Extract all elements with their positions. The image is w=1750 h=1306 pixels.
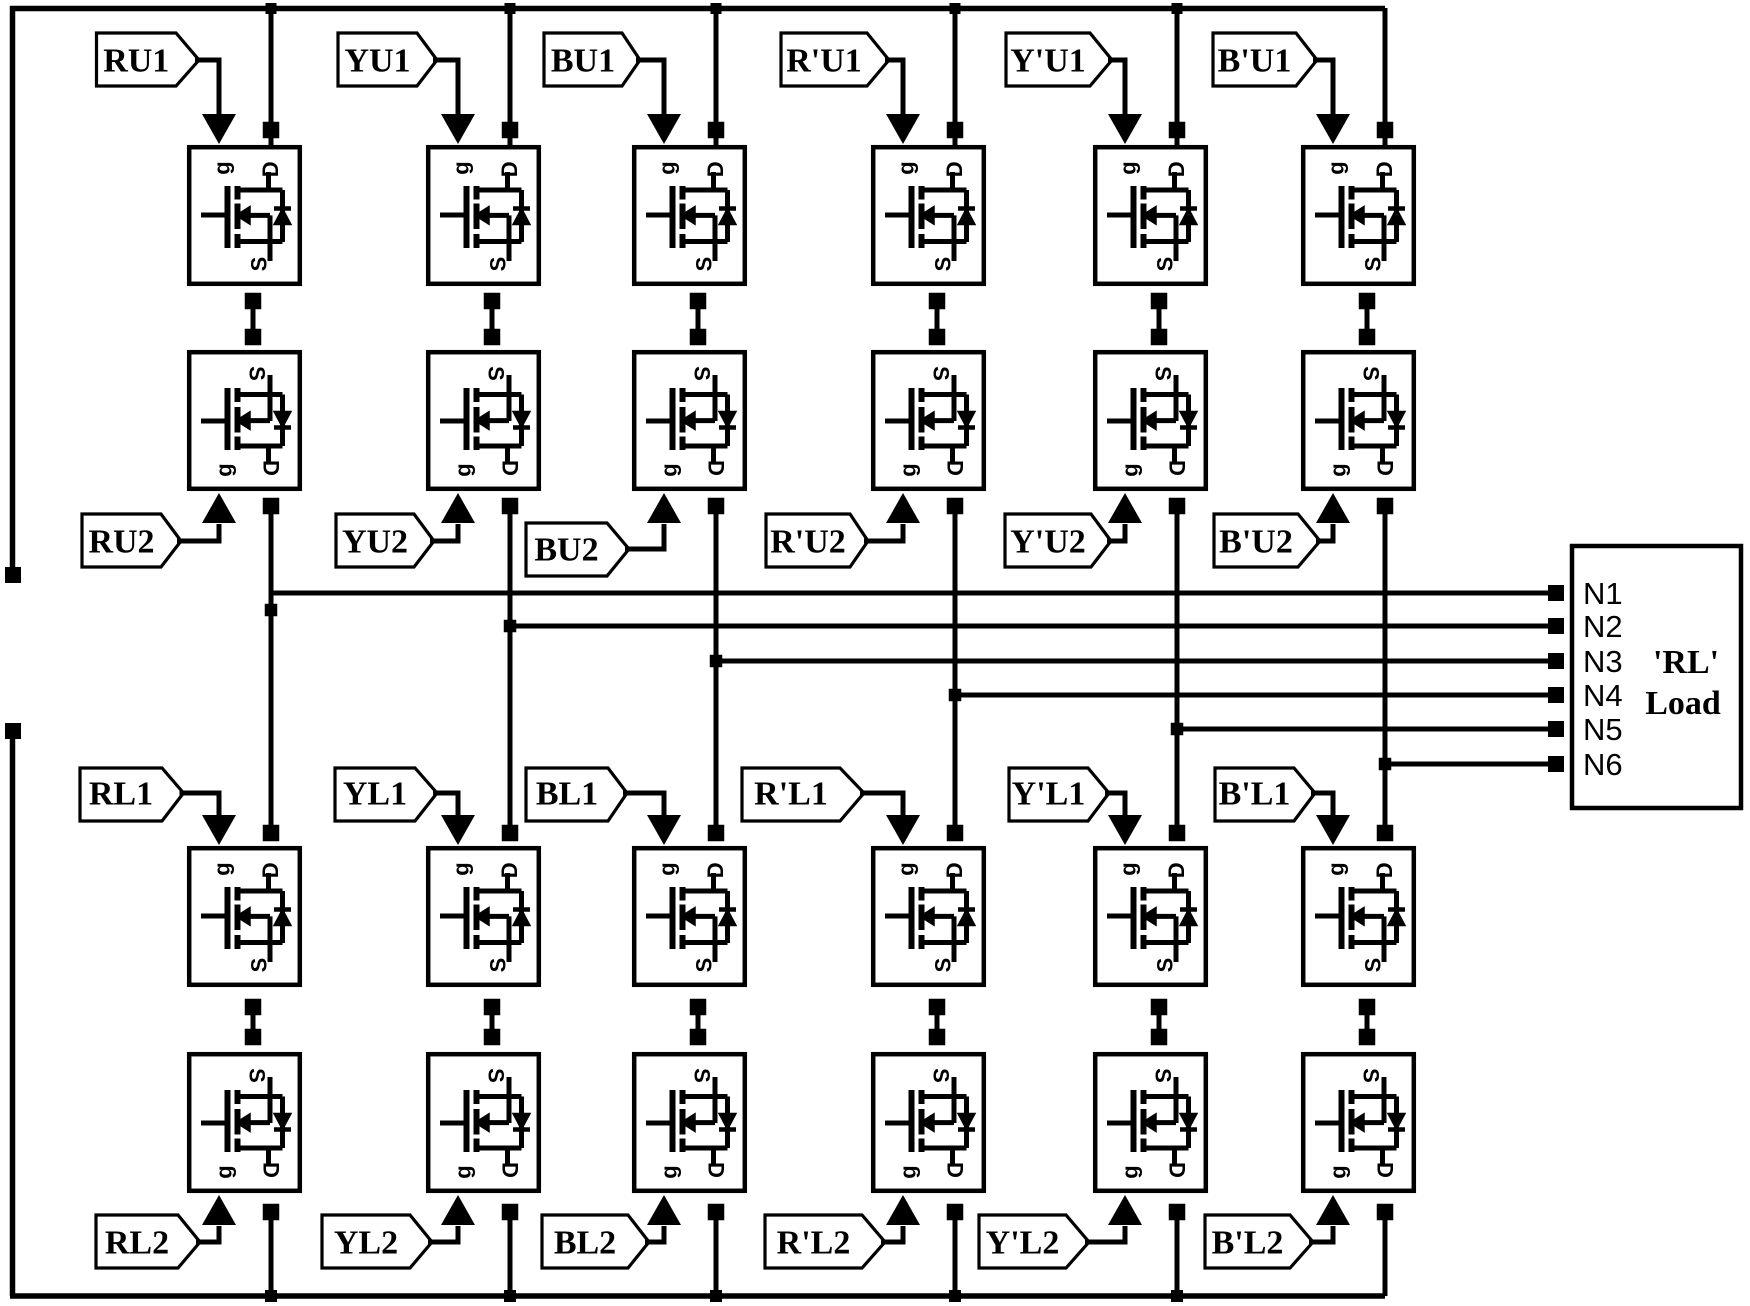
junction bottom bus col 1 [265, 1290, 277, 1302]
wire tag B'L1 to gate [1311, 793, 1333, 818]
svg-text:YU2: YU2 [342, 524, 408, 561]
mosfet YL2 [428, 1054, 539, 1191]
port square S B'L2 [1359, 1029, 1376, 1046]
junction node N1 [265, 604, 278, 617]
port square N3 [1548, 653, 1564, 669]
goto tag B'U2 [1214, 514, 1320, 567]
port square D BL1 [708, 825, 725, 842]
gate arrow Y'U2 [1108, 493, 1142, 523]
mosfet YL1 [428, 848, 539, 985]
goto tag BL1 [526, 768, 627, 821]
port square D Y'L2 [1169, 1204, 1186, 1221]
mosfet RL2 [189, 1054, 300, 1191]
goto tag B'L2 [1205, 1215, 1313, 1268]
wire node N5 line [1177, 727, 1556, 732]
wire Y'U drain to top bus [1175, 8, 1180, 145]
mosfet RU1 [189, 147, 300, 284]
port square D B'U2 [1377, 498, 1394, 515]
wire YL2 drain to bottom bus [508, 1212, 513, 1296]
svg-text:RL1: RL1 [89, 776, 153, 813]
port square S Y'U1 [1151, 293, 1168, 310]
svg-text:Y'L2: Y'L2 [986, 1225, 1060, 1262]
gate arrow Y'L2 [1108, 1195, 1142, 1225]
wire tag YL2 to gate [428, 1226, 458, 1242]
port square S YL2 [484, 1029, 501, 1046]
svg-text:N6: N6 [1583, 747, 1623, 782]
goto tag R'U1 [781, 33, 889, 86]
wire RU drain to top bus [269, 8, 274, 145]
svg-text:R'L1: R'L1 [754, 776, 828, 813]
wire tag R'L2 to gate [881, 1226, 903, 1242]
gate arrow RU2 [202, 493, 236, 523]
port square S RU1 [245, 293, 262, 310]
port square S RL1 [245, 999, 262, 1016]
junction top bus col 3 [711, 3, 722, 14]
wire YU drain to top bus [508, 8, 513, 145]
mosfet B'L2 [1303, 1054, 1414, 1191]
port square D R'U2 [947, 498, 964, 515]
svg-text:B'L2: B'L2 [1212, 1225, 1284, 1262]
wire B'L2 drain to bottom bus [1383, 1212, 1388, 1296]
wire S R'U1 to S R'U2 [935, 301, 940, 337]
gate arrow BU1 [647, 114, 681, 144]
mosfet RU2 [189, 352, 300, 489]
port square D R'L1 [947, 825, 964, 842]
svg-text:RL2: RL2 [105, 1225, 169, 1262]
wire top bus [10, 6, 1385, 12]
wire BL2 drain to bottom bus [714, 1212, 719, 1296]
wire S B'L1 to S B'L2 [1365, 1007, 1370, 1037]
wire S YU1 to S YU2 [490, 301, 495, 337]
wire tag BL1 to gate [623, 793, 664, 818]
port square D R'U1 [947, 122, 964, 139]
mosfet Y'L2 [1095, 1054, 1206, 1191]
goto tag Y'U2 [1005, 514, 1111, 567]
port square D YL1 [502, 825, 519, 842]
mosfet R'L2 [873, 1054, 984, 1191]
goto tag BU1 [544, 33, 640, 86]
port square S R'U2 [929, 329, 946, 346]
port square D Y'L1 [1169, 825, 1186, 842]
wire tag Y'U2 to gate [1107, 524, 1125, 541]
mosfet Y'L1 [1095, 848, 1206, 985]
goto tag Y'L1 [1009, 768, 1109, 821]
wire node N6 line [1385, 762, 1556, 767]
wire tag R'L1 to gate [860, 793, 903, 818]
goto tag Y'U1 [1006, 33, 1112, 86]
port square D B'U1 [1377, 122, 1394, 139]
wire S Y'L1 to S Y'L2 [1157, 1007, 1162, 1037]
wire node N1 line [271, 591, 1556, 596]
mosfet RL1 [189, 848, 300, 985]
port square S B'L1 [1359, 999, 1376, 1016]
wire S R'L1 to S R'L2 [935, 1007, 940, 1037]
gate arrow B'U2 [1316, 493, 1350, 523]
svg-text:B'L1: B'L1 [1219, 776, 1291, 813]
wire tag BU2 to gate [625, 524, 664, 549]
junction bottom bus col 5 [1171, 1290, 1183, 1302]
wire S BL1 to S BL2 [696, 1007, 701, 1037]
port square S BU1 [690, 293, 707, 310]
gate arrow B'L2 [1316, 1195, 1350, 1225]
svg-text:N2: N2 [1583, 609, 1623, 644]
junction bottom bus col 2 [504, 1290, 516, 1302]
port square S BU2 [690, 329, 707, 346]
mosfet BL2 [634, 1054, 745, 1191]
goto tag R'L2 [765, 1215, 885, 1268]
wire Y'L2 drain to bottom bus [1175, 1212, 1180, 1296]
wire B'U drain to top bus [1383, 8, 1388, 145]
junction top bus col 1 [266, 3, 277, 14]
port square N1 [1548, 585, 1564, 601]
port square D Y'U1 [1169, 122, 1186, 139]
port square S BL1 [690, 999, 707, 1016]
mosfet YU1 [428, 147, 539, 284]
svg-text:Y'U2: Y'U2 [1010, 524, 1086, 561]
port square N6 [1548, 756, 1564, 772]
junction node N2 [504, 620, 517, 633]
port square S RL2 [245, 1029, 262, 1046]
wire tag Y'L2 to gate [1085, 1226, 1125, 1242]
port square D YU2 [502, 498, 519, 515]
port square S Y'L1 [1151, 999, 1168, 1016]
port square D BL2 [708, 1204, 725, 1221]
wire tag B'U1 to gate [1313, 60, 1333, 117]
mosfet R'U2 [873, 352, 984, 489]
mosfet Y'U1 [1095, 147, 1206, 284]
mosfet BU2 [634, 352, 745, 489]
wire R'U2 drain to R'L1 drain [953, 506, 958, 833]
wire node N2 line [510, 624, 1556, 629]
port square S R'U1 [929, 293, 946, 310]
port square D Y'U2 [1169, 498, 1186, 515]
wire bottom bus [10, 1293, 1385, 1299]
wire tag RU2 to gate [177, 524, 219, 541]
wire tag BU1 to gate [636, 60, 664, 117]
goto tag R'L1 [742, 768, 864, 821]
goto tag BU2 [526, 523, 629, 576]
gate arrow RL1 [202, 815, 236, 845]
wire tag Y'U1 to gate [1108, 60, 1125, 117]
wire Y'U2 drain to Y'L1 drain [1175, 506, 1180, 833]
junction bottom bus col 3 [710, 1290, 722, 1302]
goto tag RL1 [80, 768, 184, 821]
wire S RU1 to S RU2 [251, 301, 256, 337]
gate arrow BL2 [647, 1195, 681, 1225]
port square D RL1 [263, 825, 280, 842]
port square D YU1 [502, 122, 519, 139]
load block 'RL' Load [1572, 546, 1741, 808]
wire B'U2 drain to B'L1 drain [1383, 506, 1388, 833]
port square D BU2 [708, 498, 725, 515]
wire node N4 line [955, 693, 1556, 698]
svg-text:'RL': 'RL' [1653, 644, 1719, 681]
port square S YL1 [484, 999, 501, 1016]
wire tag B'U2 to gate [1316, 524, 1333, 541]
port square S Y'L2 [1151, 1029, 1168, 1046]
junction bottom bus col 4 [949, 1290, 961, 1302]
svg-text:BU1: BU1 [551, 43, 615, 80]
gate arrow YU2 [441, 493, 475, 523]
port square D RL2 [263, 1204, 280, 1221]
wire tag RU1 to gate [195, 60, 219, 117]
port square D BU1 [708, 122, 725, 139]
port square S YU1 [484, 293, 501, 310]
wire node N3 line [716, 659, 1556, 664]
wire R'U drain to top bus [953, 8, 958, 145]
port square S R'L2 [929, 1029, 946, 1046]
gate arrow B'L1 [1316, 815, 1350, 845]
goto tag YL1 [335, 768, 437, 821]
mosfet B'L1 [1303, 848, 1414, 985]
goto tag YU1 [338, 33, 437, 86]
svg-text:R'L2: R'L2 [777, 1225, 851, 1262]
mosfet BL1 [634, 848, 745, 985]
wire tag R'U2 to gate [864, 524, 903, 541]
svg-text:N4: N4 [1583, 678, 1623, 713]
port square N2 [1548, 618, 1564, 634]
port square D RU1 [263, 122, 280, 139]
goto tag RL2 [96, 1215, 200, 1268]
gate arrow Y'U1 [1108, 114, 1142, 144]
wire tag RL2 to gate [196, 1226, 219, 1242]
port square S RU2 [245, 329, 262, 346]
svg-text:Y'U1: Y'U1 [1010, 43, 1086, 80]
port square N4 [1548, 687, 1564, 703]
svg-text:BL1: BL1 [536, 776, 598, 813]
goto tag Y'L2 [979, 1215, 1089, 1268]
gate arrow Y'L1 [1108, 815, 1142, 845]
wire YU2 drain to YL1 drain [508, 506, 513, 833]
goto tag YU2 [336, 514, 434, 567]
gate arrow R'U1 [886, 114, 920, 144]
wire RL2 drain to bottom bus [269, 1212, 274, 1296]
svg-text:YU1: YU1 [344, 43, 410, 80]
port square D B'L1 [1377, 825, 1394, 842]
port square S R'L1 [929, 999, 946, 1016]
goto tag RU1 [97, 33, 200, 86]
goto tag B'L1 [1215, 768, 1315, 821]
port square S YU2 [484, 329, 501, 346]
mosfet B'U2 [1303, 352, 1414, 489]
gate arrow B'U1 [1316, 114, 1350, 144]
mosfet R'U1 [873, 147, 984, 284]
goto tag R'U2 [766, 514, 868, 567]
wire BU2 drain to BL1 drain [714, 506, 719, 833]
port square D RU2 [263, 498, 280, 515]
svg-text:Y'L1: Y'L1 [1012, 776, 1086, 813]
junction top bus col 5 [1172, 3, 1183, 14]
goto tag YL2 [322, 1215, 432, 1268]
port square D R'L2 [947, 1204, 964, 1221]
wire tag Y'L1 to gate [1105, 793, 1125, 818]
junction node N3 [710, 655, 723, 668]
junction top bus col 2 [505, 3, 516, 14]
wire tag BL2 to gate [645, 1226, 664, 1242]
mosfet B'U1 [1303, 147, 1414, 284]
port square D YL2 [502, 1204, 519, 1221]
wire left rail lower [10, 731, 16, 1296]
wire S B'U1 to S B'U2 [1365, 301, 1370, 337]
wire tag YU1 to gate [433, 60, 458, 117]
junction node N4 [949, 689, 962, 702]
wire left rail upper [10, 6, 16, 575]
svg-text:B'U2: B'U2 [1219, 524, 1293, 561]
wire RU2 drain to RL1 drain [269, 506, 274, 833]
goto tag B'U1 [1213, 33, 1317, 86]
svg-text:R'U2: R'U2 [770, 524, 846, 561]
port square N5 [1548, 721, 1564, 737]
wire tag B'L2 to gate [1309, 1226, 1333, 1242]
junction node N5 [1171, 723, 1184, 736]
gate arrow R'L2 [886, 1195, 920, 1225]
wire tag YL1 to gate [433, 793, 458, 818]
gate arrow YL2 [441, 1195, 475, 1225]
svg-text:BU2: BU2 [534, 532, 598, 569]
junction top bus col 4 [950, 3, 961, 14]
goto tag RU2 [82, 514, 181, 567]
svg-text:R'U1: R'U1 [786, 43, 862, 80]
wire S YL1 to S YL2 [490, 1007, 495, 1037]
port square left rail lower end [5, 723, 21, 739]
wire tag R'U1 to gate [885, 60, 903, 117]
port square S B'U1 [1359, 293, 1376, 310]
svg-text:RU1: RU1 [103, 43, 169, 80]
goto tag BL2 [542, 1215, 649, 1268]
gate arrow R'U2 [886, 493, 920, 523]
wire R'L2 drain to bottom bus [953, 1212, 958, 1296]
junction node N6 [1379, 758, 1392, 771]
wire S Y'U1 to S Y'U2 [1157, 301, 1162, 337]
svg-text:N1: N1 [1583, 576, 1623, 611]
svg-text:B'U1: B'U1 [1218, 43, 1292, 80]
gate arrow RL2 [202, 1195, 236, 1225]
port square S Y'U2 [1151, 329, 1168, 346]
gate arrow YL1 [441, 815, 475, 845]
port square left rail upper end [5, 567, 21, 583]
svg-text:Load: Load [1645, 685, 1721, 722]
gate arrow YU1 [441, 114, 475, 144]
port square D B'L2 [1377, 1204, 1394, 1221]
wire BU drain to top bus [714, 8, 719, 145]
svg-text:RU2: RU2 [88, 524, 154, 561]
gate arrow R'L1 [886, 815, 920, 845]
wire S RL1 to S RL2 [251, 1007, 256, 1037]
gate arrow RU1 [202, 114, 236, 144]
wire tag YU2 to gate [430, 524, 458, 541]
svg-text:YL1: YL1 [343, 776, 407, 813]
gate arrow BL1 [647, 815, 681, 845]
wire S BU1 to S BU2 [696, 301, 701, 337]
svg-text:BL2: BL2 [554, 1225, 616, 1262]
port square S B'U2 [1359, 329, 1376, 346]
svg-text:N3: N3 [1583, 644, 1623, 679]
port square S BL2 [690, 1029, 707, 1046]
mosfet Y'U2 [1095, 352, 1206, 489]
mosfet R'L1 [873, 848, 984, 985]
mosfet BU1 [634, 147, 745, 284]
svg-text:N5: N5 [1583, 712, 1623, 747]
gate arrow BU2 [647, 493, 681, 523]
mosfet YU2 [428, 352, 539, 489]
svg-text:YL2: YL2 [334, 1225, 398, 1262]
wire tag RL1 to gate [180, 793, 220, 818]
